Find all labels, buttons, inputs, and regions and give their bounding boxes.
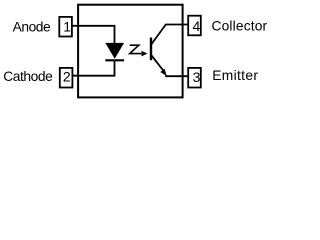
LED D1 cathode bar: [105, 59, 124, 61]
svg-text:4: 4: [193, 18, 201, 34]
svg-text:Emitter: Emitter: [212, 68, 258, 83]
phototransistor emitter stroke: [151, 55, 163, 71]
pin box 1: [59, 17, 72, 37]
svg-text:2: 2: [63, 68, 71, 84]
svg-text:Collector: Collector: [212, 18, 268, 33]
pin box 3: [188, 68, 201, 88]
phototransistor Q1 base bar: [150, 38, 152, 61]
svg-text:3: 3: [193, 69, 201, 85]
wire emitter to pin 3: [165, 75, 188, 77]
pin box 2: [60, 68, 73, 88]
LED D1 anode triangle: [105, 43, 124, 59]
package outline: [78, 5, 183, 98]
svg-text:Cathode: Cathode: [3, 69, 53, 84]
light emission arrow (zigzag): [130, 45, 142, 53]
light arrow head: [142, 51, 148, 57]
wire cathode (LED to pin 2): [73, 61, 115, 76]
phototransistor collector stroke + wire to pin 4: [151, 25, 188, 45]
wire anode (pin 1 to LED): [72, 26, 115, 44]
emitter arrow head: [160, 69, 167, 77]
pin box 4: [188, 16, 201, 36]
svg-text:Anode: Anode: [13, 19, 51, 34]
svg-text:1: 1: [63, 19, 71, 35]
